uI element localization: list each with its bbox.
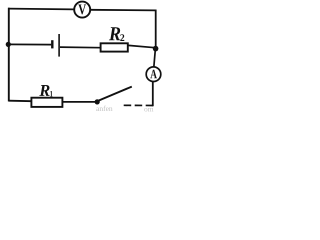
wire ammeter to bottom corner xyxy=(152,81,154,106)
wire junction-dot to ammeter xyxy=(154,49,156,68)
switch lever (open) xyxy=(98,87,132,101)
resistor R1 box xyxy=(31,98,62,107)
resistor R2 box xyxy=(101,43,128,51)
wire R2 to junction dot xyxy=(128,45,155,47)
voltmeter V xyxy=(74,2,90,18)
label V of voltmeter xyxy=(78,5,86,15)
switch pivot dot xyxy=(95,99,100,104)
wire bottom-left segment xyxy=(9,100,32,103)
wire right upper vertical xyxy=(155,10,157,49)
wire left vertical xyxy=(8,8,10,102)
junction dot left (node) xyxy=(6,42,11,47)
wire battery left lead xyxy=(9,43,52,45)
label R1 letter R xyxy=(39,85,49,96)
wire bottom-right dashed segment xyxy=(121,104,153,106)
wire top-right segment xyxy=(90,9,156,12)
wire battery to R2 xyxy=(60,46,101,49)
ammeter A xyxy=(146,67,161,82)
label R2 letter R xyxy=(109,27,120,40)
wire R1 to switch pivot xyxy=(63,101,96,103)
junction dot right (node) xyxy=(153,46,159,52)
svg-text:om: om xyxy=(144,105,154,113)
svg-text:anfen: anfen xyxy=(96,104,113,112)
label R1 subscript 1 xyxy=(50,91,52,97)
battery positive plate (long) xyxy=(58,34,60,57)
label R2 subscript 2 xyxy=(120,34,124,41)
label A of ammeter xyxy=(150,70,157,78)
wire top-left segment xyxy=(8,8,74,11)
battery negative plate (short) xyxy=(51,40,53,48)
